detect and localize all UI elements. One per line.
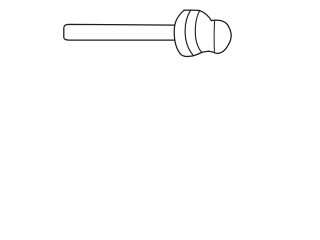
rod (shaft with rounded left cap) — [64, 24, 175, 40]
knob seam line — [213, 21, 215, 53]
collar outer left arc — [174, 10, 187, 56]
collar neck descent to knob — [200, 10, 212, 20]
collar inner rim arc 2 — [195, 11, 201, 53]
collar bottom edge — [187, 51, 209, 56]
collar inner rim arc 1 — [185, 11, 193, 56]
knob outline — [209, 20, 232, 53]
collar top plateau — [184, 9, 200, 11]
